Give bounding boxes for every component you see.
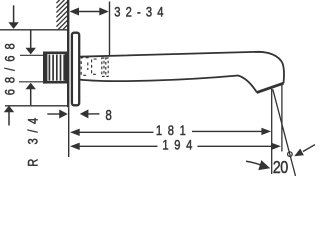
ceiling extension line B <box>0 29 68 31</box>
svg-text:181: 181 <box>156 123 186 138</box>
dim 194 <box>70 138 281 153</box>
threaded nipple <box>43 52 66 84</box>
wall extension line lower <box>68 107 70 157</box>
outlet extension line V2 <box>281 85 283 152</box>
thread dim lower arrow <box>25 83 36 106</box>
svg-text:194: 194 <box>162 138 192 153</box>
outlet face <box>257 83 284 92</box>
internal dashed detail 2 <box>92 59 97 74</box>
svg-text:20: 20 <box>273 158 289 176</box>
spout top outline and end corner <box>79 52 284 83</box>
dim 68/68 upper arrow <box>8 5 19 29</box>
bottom extension line D <box>5 105 68 107</box>
escutcheon flange <box>72 33 79 106</box>
dim 8 <box>47 107 112 124</box>
dim 181 <box>70 123 271 138</box>
dim 32-34 <box>70 2 164 57</box>
nipple top extension line C <box>20 54 43 56</box>
angle dim 20deg <box>246 145 315 178</box>
svg-text:8: 8 <box>105 107 111 124</box>
thread dim upper arrow <box>25 30 36 54</box>
spray direction line <box>273 89 296 176</box>
internal dashed detail 3 <box>102 58 104 76</box>
outlet extension line V1 <box>271 88 273 174</box>
dim 68/68 lower arrow <box>4 106 15 126</box>
wall hatching <box>56 0 67 41</box>
nipple bottom extension line E <box>19 81 43 83</box>
spout underside <box>79 76 257 93</box>
internal dashed detail 1 <box>81 58 88 76</box>
wall line <box>67 0 69 107</box>
